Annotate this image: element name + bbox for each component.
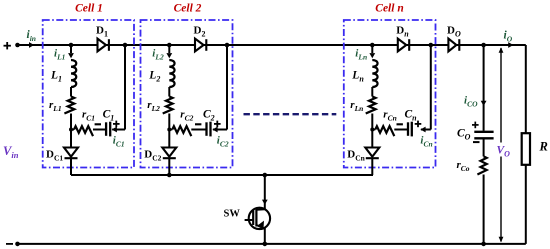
wire switch source	[263, 228, 268, 247]
diode D2	[194, 25, 207, 52]
cell n box	[344, 20, 436, 168]
node top of cell n inductor branch	[370, 43, 375, 48]
capacitor CO	[457, 122, 494, 143]
current arrow iC2	[212, 127, 228, 149]
resistor rC2	[169, 109, 206, 137]
wire switch drain	[262, 175, 268, 209]
current arrow iCn	[420, 127, 432, 149]
diode DC2	[144, 148, 176, 176]
node switch drain junction	[263, 173, 268, 178]
node output cap branch junction	[481, 43, 486, 48]
resistor R (load)	[522, 45, 548, 244]
capacitor Cn	[397, 109, 422, 137]
wire	[70, 87, 72, 97]
resistor rLn	[350, 97, 375, 114]
svg-text:Cell 1: Cell 1	[75, 3, 103, 15]
wire riser to top	[429, 43, 434, 130]
current arrow iC1	[112, 127, 125, 149]
current arrow iCO	[464, 45, 487, 131]
resistor rC1	[71, 109, 106, 137]
node input - terminal	[6, 242, 20, 247]
wire bottom rail	[18, 243, 526, 245]
diode DO	[447, 25, 461, 52]
wire	[371, 114, 373, 148]
node top of cell 2 inductor branch	[167, 43, 172, 48]
capacitor C2	[195, 109, 221, 137]
label Vin	[3, 144, 19, 160]
diode DC1	[46, 148, 78, 176]
diode Dn	[396, 25, 409, 52]
node cell 1 RC branch junction	[69, 128, 73, 132]
resistor rL2	[147, 97, 172, 114]
current arrow iL1	[54, 45, 74, 61]
resistor rCn	[372, 109, 408, 137]
cell 2 box	[141, 20, 233, 168]
wire	[371, 87, 373, 97]
resistor rCo	[457, 138, 487, 246]
wire	[168, 114, 170, 148]
current arrow iL2	[152, 45, 172, 61]
wire top rail	[18, 44, 526, 46]
inductor L2	[148, 60, 174, 87]
current arrow iLn	[355, 45, 375, 61]
svg-text:SW: SW	[224, 208, 241, 219]
node DC2 to rail junction	[167, 173, 172, 178]
wire riser to top	[123, 43, 128, 130]
wire	[70, 114, 72, 148]
node cell 2 RC branch junction	[167, 128, 171, 132]
current arrow iO	[504, 30, 514, 48]
diode D1	[96, 25, 109, 52]
diode DCn	[347, 148, 379, 176]
inductor Ln	[351, 60, 377, 87]
wire continuation dashes (cells 2..n)	[244, 113, 337, 115]
svg-text:Cell 2: Cell 2	[174, 3, 202, 15]
inductor L1	[50, 60, 76, 87]
node cell n RC branch junction	[370, 128, 374, 132]
node top of cell 1 inductor branch	[69, 43, 74, 48]
transistor SW	[224, 208, 271, 229]
svg-text:R: R	[539, 140, 548, 154]
wire middle rail (DC diodes to switch)	[71, 174, 373, 176]
node input + terminal	[4, 42, 20, 49]
label Cell 2	[174, 3, 202, 15]
current arrow i_in	[27, 29, 36, 48]
resistor rL1	[49, 97, 74, 114]
wire riser to top	[225, 43, 230, 130]
capacitor C1	[95, 109, 120, 137]
svg-text:Cell n: Cell n	[375, 3, 403, 15]
wire	[168, 87, 170, 97]
label Cell n	[375, 3, 403, 15]
label Cell 1	[75, 3, 103, 15]
voltage arrow VO	[495, 47, 510, 242]
cell 1 box	[43, 20, 134, 168]
